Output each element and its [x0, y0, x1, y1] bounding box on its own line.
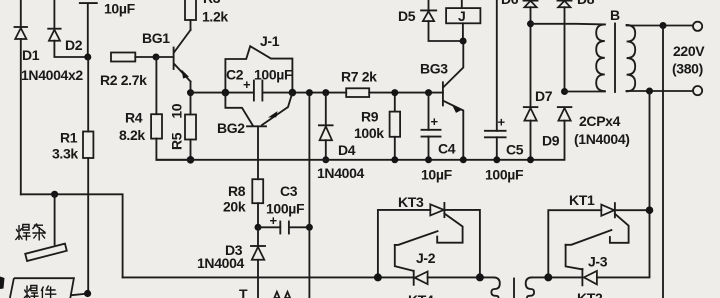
node BG3 emitter bus [460, 156, 467, 163]
diode D8 (cut at top) [558, 1, 572, 92]
wire 220V line down full height [662, 26, 664, 298]
svg-text:J: J [458, 8, 465, 24]
node B: R2/R4/BG1 base junction [153, 54, 160, 61]
node D4 top [322, 89, 329, 96]
resistor R8 [252, 179, 263, 227]
svg-text:D1: D1 [22, 47, 40, 63]
svg-text:BG3: BG3 [420, 61, 448, 77]
node C3 right [306, 224, 313, 231]
svg-text:R2 2.7k: R2 2.7k [100, 72, 147, 88]
node C4 top [425, 89, 432, 96]
svg-text:D4: D4 [338, 142, 356, 158]
wire B secondary top to terminal [627, 25, 693, 27]
KT1 gate wire [610, 214, 629, 243]
bottom AC bus wire [123, 210, 650, 277]
svg-text:BG2: BG2 [217, 120, 245, 136]
capacitor C3 [258, 213, 309, 234]
transistor BG2 [225, 93, 292, 180]
diode D3 [251, 227, 265, 298]
capacitor C5 [485, 0, 506, 160]
svg-text:C3: C3 [280, 183, 298, 199]
diode D7 [524, 107, 538, 160]
svg-text:J-2: J-2 [416, 250, 436, 266]
svg-text:220V: 220V [673, 43, 705, 59]
transformer T core (cut) [513, 279, 515, 298]
relay contact J-1 [225, 46, 292, 92]
resistor R9 [390, 93, 401, 160]
label 焊条 (hanzi approximation) [15, 224, 45, 241]
left edge artifact blob [0, 277, 5, 290]
svg-text:D6: D6 [501, 0, 519, 7]
svg-text:+: + [431, 114, 439, 129]
svg-text:C4: C4 [438, 141, 456, 157]
transformer T right winding (cut) [526, 277, 534, 298]
node workpiece/R1 junction [84, 290, 91, 297]
svg-text:D9: D9 [542, 133, 560, 149]
resistor R2 [111, 53, 156, 62]
relay contact J-3 [566, 230, 612, 269]
resistor R3 (cut at top) [185, 0, 196, 30]
node J-1 left / BG2 collector [222, 89, 230, 97]
svg-text:1N4004: 1N4004 [197, 255, 245, 271]
svg-text:R5 10: R5 10 [169, 103, 185, 150]
relay coil J [446, 0, 480, 41]
thyristor KT3 [430, 203, 480, 278]
resistor R4 [151, 57, 190, 160]
svg-text:1.2k: 1.2k [202, 9, 228, 25]
terminal top (220V) [693, 22, 702, 31]
node bus / KT1 left [544, 273, 552, 281]
node C5 bus [493, 156, 500, 163]
svg-text:8.2k: 8.2k [119, 127, 145, 143]
diode D5 [421, 0, 463, 41]
transformer B core [614, 24, 616, 93]
workpiece plate (焊件) [10, 278, 88, 298]
svg-text:+: + [243, 77, 251, 92]
transformer T tap arrow 2 [285, 292, 290, 298]
node BG1 emitter / R5 [187, 89, 194, 96]
svg-text:J-3: J-3 [588, 254, 608, 270]
svg-text:R1: R1 [60, 130, 78, 146]
node R9 bus [391, 156, 398, 163]
diode D2 [48, 0, 88, 57]
transformer B right winding [627, 25, 636, 91]
svg-text:10µF: 10µF [104, 1, 136, 17]
wire AC bottom to transformer B [565, 91, 605, 93]
svg-text:B: B [610, 7, 620, 23]
transformer B left winding [596, 24, 605, 91]
diode D6 (cut at top) [524, 1, 538, 108]
diode D1 [15, 0, 28, 194]
thyristor KT4 (on bus) [414, 271, 428, 285]
terminal bottom (220V) [693, 86, 702, 95]
svg-text:(380): (380) [672, 61, 703, 77]
wire electrode net: D1 to corner and right [21, 194, 123, 277]
svg-text:3.3k: 3.3k [52, 146, 78, 162]
node B bottom tap [646, 88, 653, 95]
main bus wire (mid rail) [156, 121, 564, 160]
svg-text:KT1: KT1 [569, 192, 595, 208]
relay contact J-2 [395, 231, 438, 271]
wire B tap down to KT1 loop [649, 91, 651, 210]
thyristor KT2 (on bus) [582, 269, 597, 285]
transformer T left winding (cut) [491, 277, 499, 298]
node R7/R9 [391, 89, 398, 96]
wire AC top to transformer B [531, 23, 605, 26]
node bus / KT3 right [476, 273, 484, 281]
svg-text:J-1: J-1 [260, 33, 280, 49]
wire emitter row [191, 92, 443, 94]
node C3 left [255, 224, 262, 231]
svg-text:R9: R9 [361, 109, 379, 125]
svg-text:100µF: 100µF [485, 167, 524, 183]
node J-1 right / BG2 emitter [289, 89, 297, 97]
svg-text:100µF: 100µF [266, 201, 305, 217]
svg-text:1N4004: 1N4004 [317, 165, 365, 181]
node A: D2/C1/R2 junction [84, 54, 91, 61]
svg-text:C5: C5 [506, 142, 524, 158]
svg-text:R7 2k: R7 2k [341, 69, 377, 85]
node 220V line tap [660, 22, 667, 29]
svg-text:10µF: 10µF [421, 167, 453, 183]
svg-text:+: + [498, 115, 506, 130]
node R4/R5 bottom bus junction [187, 156, 195, 164]
resistor R1 [83, 57, 93, 294]
thyristor KT1 [601, 203, 649, 217]
svg-text:R8: R8 [228, 183, 246, 199]
svg-text:D8: D8 [577, 0, 595, 7]
welding electrode bar (焊条) [25, 244, 67, 261]
node D7 bus [527, 156, 534, 163]
svg-text:100µF: 100µF [254, 67, 293, 83]
svg-text:2CPx4: 2CPx4 [579, 113, 621, 129]
node C4 bus [425, 156, 432, 163]
wire to welding electrode [54, 194, 56, 244]
svg-text:R4: R4 [125, 110, 143, 126]
svg-text:C2: C2 [226, 67, 244, 83]
transistor BG1 [174, 30, 191, 93]
node KT1 loop / B tap [646, 206, 654, 214]
svg-text:KT3: KT3 [398, 194, 424, 210]
node bus / KT3 left [374, 273, 382, 281]
wire C3 right to emitter row and bottom [308, 93, 310, 298]
diode D4 [319, 93, 333, 160]
node electrode junction [51, 191, 58, 198]
node emitter row / C3 branch [306, 89, 313, 96]
node D8/D9 AC junction [561, 88, 568, 95]
svg-text:D2: D2 [65, 37, 83, 53]
capacitor C4 [422, 93, 441, 160]
svg-text:R3: R3 [203, 0, 221, 6]
svg-text:20k: 20k [223, 199, 246, 215]
node D4 bus junction [322, 156, 329, 163]
capacitor 10µF (top, cut off) [80, 3, 97, 57]
svg-text:D5: D5 [398, 8, 416, 24]
thyristor KT1 loop left leg [548, 210, 601, 277]
resistor R5 [185, 93, 196, 160]
svg-text:D7: D7 [535, 88, 553, 104]
svg-text:BG1: BG1 [142, 30, 170, 46]
svg-text:(1N4004): (1N4004) [574, 131, 630, 147]
capacitor C2 [243, 77, 262, 101]
thyristor KT3 loop left leg [378, 210, 430, 278]
transformer T tap arrow 1 [274, 292, 279, 298]
wire base node to BG1 [156, 56, 174, 58]
svg-text:KT2: KT2 [577, 290, 603, 298]
transistor BG3 [443, 41, 463, 160]
label 焊件 (hanzi approximation) [24, 286, 56, 298]
svg-text:T: T [239, 286, 248, 298]
svg-text:1N4004x2: 1N4004x2 [21, 67, 83, 83]
resistor R7 [346, 88, 369, 97]
KT3 gate wire [437, 214, 462, 243]
node D5/J/BG3 collector [460, 38, 467, 45]
diode D9 [558, 107, 572, 121]
node D6 / AC wire to transformer top [527, 20, 534, 27]
svg-text:KT4: KT4 [408, 292, 434, 298]
svg-text:100k: 100k [354, 125, 384, 141]
wire B secondary bottom to terminal [627, 90, 693, 92]
